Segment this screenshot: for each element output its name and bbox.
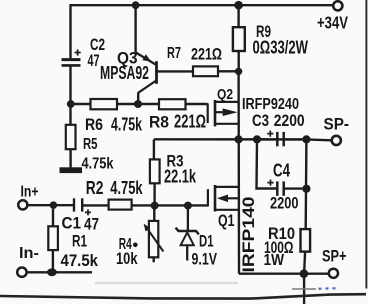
svg-text:MPSA92: MPSA92: [100, 63, 149, 83]
node drain/SP- junction: [235, 135, 243, 143]
node C3/C4 branch junction: [253, 135, 261, 143]
resistor R9: [233, 5, 245, 71]
node Q3 emitter to rail: [132, 1, 140, 9]
wire faint smudge: [95, 282, 238, 285]
terminal SP-: [332, 136, 341, 145]
wire C2 upper lead: [69, 4, 71, 58]
resistor R8: [159, 99, 186, 109]
resistor R6: [91, 99, 118, 109]
svg-text:R1: R1: [72, 232, 87, 251]
svg-text:Q2: Q2: [217, 86, 233, 103]
node C2/R5/R6 junction: [67, 100, 75, 108]
wire In- line: [27, 271, 92, 273]
svg-text:+34V: +34V: [317, 13, 348, 33]
svg-text:4.75k: 4.75k: [82, 156, 114, 173]
svg-text:2200: 2200: [274, 111, 305, 130]
wire SP+ line: [239, 273, 328, 275]
capacitor C2: [62, 49, 81, 65]
resistor R2: [109, 200, 132, 210]
transistor Q2: [208, 100, 239, 126]
wire Q3 base to R7: [158, 70, 194, 72]
capacitor C1: [74, 198, 91, 215]
svg-text:R5: R5: [83, 136, 98, 153]
svg-text:R7: R7: [167, 45, 181, 62]
svg-text:0Ω33/2W: 0Ω33/2W: [253, 38, 309, 58]
svg-text:IRFP140: IRFP140: [239, 197, 258, 273]
svg-text:10k: 10k: [116, 249, 138, 268]
node In+/R1 junction: [50, 201, 58, 209]
svg-text:22.1k: 22.1k: [164, 167, 197, 187]
svg-text:R6: R6: [85, 115, 103, 134]
svg-text:R8: R8: [149, 113, 169, 132]
resistor R5: [66, 104, 76, 167]
svg-text:47.5k: 47.5k: [61, 251, 99, 270]
transistor Q1: [208, 185, 239, 212]
terminal +34V: [333, 1, 342, 10]
resistor R1: [48, 209, 58, 272]
node In-/R1 junction: [47, 268, 57, 276]
node R7/R9/Q2 junction: [235, 68, 242, 75]
wire right page border: [365, 0, 367, 289]
svg-text:C4: C4: [273, 161, 290, 181]
svg-text:1W: 1W: [264, 252, 285, 269]
ground: [60, 167, 83, 173]
terminal In-: [17, 268, 26, 277]
node R10 top junction: [302, 135, 310, 143]
svg-text:In+: In+: [21, 184, 39, 201]
svg-text:SP+: SP+: [322, 247, 347, 266]
svg-text:2200: 2200: [270, 194, 299, 213]
svg-text:9.1V: 9.1V: [192, 250, 218, 269]
resistor R10: [301, 139, 311, 304]
wire top +34V rail: [71, 4, 333, 6]
svg-text:R2: R2: [86, 178, 104, 198]
rheostat R4: [144, 206, 164, 263]
svg-text:4.75k: 4.75k: [111, 115, 143, 135]
wire R7 to main rail: [218, 70, 239, 72]
node R3/R4 junction: [151, 202, 159, 210]
terminal In+: [18, 200, 27, 209]
svg-text:221Ω: 221Ω: [174, 112, 206, 132]
transistor Q3: [136, 5, 157, 104]
wire main vertical drain line: [237, 71, 240, 273]
terminal SP+: [329, 269, 338, 278]
wire C2 lower lead: [69, 67, 71, 105]
node R9 top to rail: [234, 1, 243, 10]
zener diode D1: [176, 206, 199, 261]
svg-text:C3: C3: [252, 111, 269, 130]
label R4 star: [133, 243, 138, 248]
node blue specks: [319, 287, 336, 290]
svg-text:C1: C1: [62, 214, 82, 233]
wire input line right of C1: [82, 204, 208, 206]
wire bias line y104: [71, 103, 208, 105]
wire C4 branch: [257, 139, 277, 188]
svg-text:47: 47: [88, 51, 100, 70]
node R10/SP+ junction: [300, 269, 309, 278]
svg-text:SP-: SP-: [324, 115, 350, 134]
wire SP- output line: [154, 139, 331, 140]
capacitor C3: [257, 131, 302, 147]
svg-text:221Ω: 221Ω: [191, 45, 222, 64]
wire bottom page border: [0, 294, 366, 298]
wire input line left of C1: [27, 204, 73, 206]
node C4/R10 junction: [302, 185, 310, 193]
node D1 junction: [184, 202, 192, 210]
resistor R3: [150, 139, 160, 205]
node Q3 collector junction: [134, 100, 142, 108]
wire faint gray segment: [292, 288, 316, 290]
svg-text:In-: In-: [19, 245, 39, 262]
svg-text:Q1: Q1: [218, 211, 235, 230]
resistor R7: [193, 66, 218, 76]
svg-text:4.75k: 4.75k: [110, 177, 143, 198]
svg-text:D1: D1: [199, 232, 214, 251]
capacitor C4: [267, 180, 302, 196]
